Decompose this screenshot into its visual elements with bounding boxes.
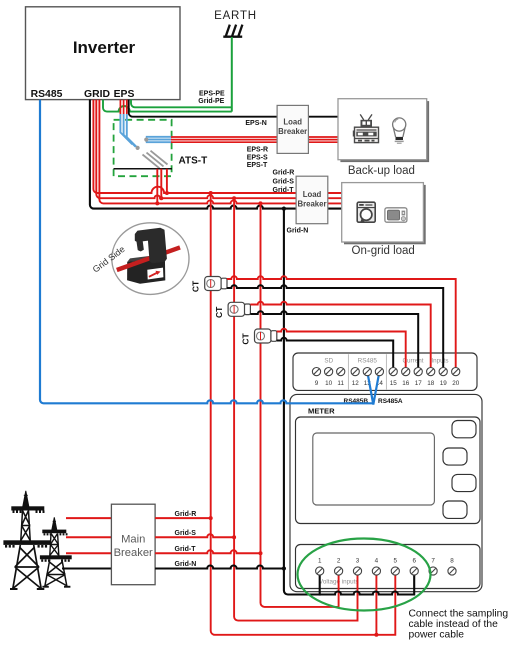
svg-text:Back-up load: Back-up load bbox=[348, 165, 415, 177]
ATS contact pivot dot bbox=[144, 138, 148, 142]
svg-text:EPS-T: EPS-T bbox=[247, 162, 268, 169]
svg-text:16: 16 bbox=[402, 380, 410, 387]
wire Grid-T bus H3 (red) bbox=[99, 100, 341, 204]
junction dots ATS feeds bbox=[155, 201, 159, 205]
svg-text:17: 17 bbox=[415, 380, 423, 387]
svg-text:METER: METER bbox=[308, 407, 335, 416]
svg-text:CT: CT bbox=[214, 306, 224, 318]
wire Grid-PE (green, bump over EPS wires) bbox=[103, 100, 232, 112]
svg-text:RS485: RS485 bbox=[358, 358, 378, 365]
ATS switch blades (blue) bbox=[120, 114, 138, 149]
meter terminal numbers 1-8 bbox=[318, 558, 454, 565]
svg-text:Main: Main bbox=[121, 534, 145, 546]
CT1 red lead bbox=[227, 276, 456, 371]
svg-text:SD: SD bbox=[324, 358, 333, 365]
CT1 current transformer bbox=[205, 277, 227, 291]
ATS grid-side blades (gray) bbox=[143, 151, 168, 169]
wire Grid-S bus H2 (red) bbox=[96, 100, 341, 199]
svg-text:Breaker: Breaker bbox=[114, 547, 153, 559]
wires grid to main breaker bbox=[66, 518, 111, 553]
wire vertical V2 Grid-S to meter terminal 3 bbox=[234, 198, 357, 620]
wire Grid-T output (bumps over V1,V2) bbox=[155, 550, 260, 553]
on-grid load box shadow bbox=[344, 185, 426, 244]
CT2 red lead bbox=[250, 302, 430, 372]
wire Grid-N output (bumps over V1,V2,V3) bbox=[155, 566, 284, 569]
meter group separators bbox=[348, 354, 386, 389]
ATS grid feed wires (red verticals to bus) bbox=[157, 169, 167, 204]
svg-text:ATS-T: ATS-T bbox=[179, 156, 208, 167]
inverter U1 bbox=[26, 7, 181, 100]
svg-text:Grid-N: Grid-N bbox=[287, 228, 309, 235]
utility grid tower (small) bbox=[40, 517, 72, 587]
svg-text:18: 18 bbox=[427, 380, 435, 387]
light bulb icon bbox=[393, 118, 406, 144]
svg-text:2: 2 bbox=[337, 558, 341, 565]
svg-text:10: 10 bbox=[325, 380, 333, 387]
microwave icon bbox=[385, 208, 407, 222]
svg-text:12: 12 bbox=[352, 380, 360, 387]
svg-text:20: 20 bbox=[452, 380, 460, 387]
svg-text:GRID: GRID bbox=[84, 89, 110, 100]
svg-text:EPS-PE: EPS-PE bbox=[199, 90, 225, 97]
highlight ellipse voltage inputs bbox=[298, 539, 431, 611]
CT3 current transformer bbox=[255, 329, 277, 343]
svg-text:EPS-N: EPS-N bbox=[245, 120, 266, 127]
svg-text:1: 1 bbox=[318, 558, 322, 565]
svg-text:19: 19 bbox=[440, 380, 448, 387]
svg-text:Grid-R: Grid-R bbox=[175, 511, 197, 518]
on-grid load box bbox=[342, 183, 424, 242]
junction dot terminal4 bbox=[374, 633, 378, 637]
svg-text:On-grid load: On-grid load bbox=[352, 245, 415, 257]
wire EPS-PE (green) bbox=[131, 100, 232, 108]
wire vertical V3 Grid-T to meter terminal 2 bbox=[261, 203, 339, 607]
svg-text:Grid-T: Grid-T bbox=[175, 546, 197, 553]
wire EPS-N (black) bbox=[129, 100, 338, 117]
annotation sampling cable bbox=[409, 609, 509, 641]
svg-text:11: 11 bbox=[337, 380, 344, 387]
wire Grid-R output bbox=[155, 517, 211, 519]
washing machine icon bbox=[357, 202, 375, 222]
wire RS485 V to terminals 13/14 bbox=[367, 372, 379, 405]
svg-text:5: 5 bbox=[394, 558, 398, 565]
svg-text:Grid-T: Grid-T bbox=[273, 187, 295, 194]
CT2 current transformer bbox=[228, 302, 250, 316]
svg-text:Grid-S: Grid-S bbox=[273, 179, 295, 186]
svg-text:15: 15 bbox=[390, 380, 398, 387]
meter terminals 1-8 circles bbox=[316, 567, 457, 575]
svg-text:power cable: power cable bbox=[409, 630, 465, 641]
svg-text:EPS: EPS bbox=[114, 89, 135, 100]
svg-text:RS485: RS485 bbox=[31, 89, 63, 100]
svg-text:7: 7 bbox=[431, 558, 435, 565]
wire RS485 (blue) inverter to meter bbox=[40, 100, 373, 404]
svg-text:cable instead of the: cable instead of the bbox=[409, 619, 499, 630]
svg-text:Inputs: Inputs bbox=[431, 358, 448, 365]
CT3 black lead bbox=[277, 338, 394, 372]
svg-text:8: 8 bbox=[450, 558, 454, 565]
svg-text:RS485A: RS485A bbox=[378, 398, 403, 405]
wire vertical V4 Grid-N to meter terminals 6,1 (black) bbox=[284, 209, 414, 595]
svg-text:CT: CT bbox=[241, 333, 251, 345]
svg-text:Grid-R: Grid-R bbox=[273, 170, 295, 177]
load breaker Q1 (EPS) bbox=[277, 105, 308, 153]
wires EPS R/S/T from inverter (red verticals) bbox=[120, 100, 126, 115]
wires EPS-R/S/T (red) to load breaker bbox=[171, 137, 338, 142]
wire Grid-N bus (black) bbox=[90, 100, 342, 209]
svg-text:CT: CT bbox=[191, 280, 201, 292]
junction dots main breaker outputs bbox=[209, 516, 213, 520]
svg-text:EPS-S: EPS-S bbox=[247, 154, 268, 161]
ATS bottom bar bbox=[114, 168, 173, 170]
junction dots bus/verticals (top) bbox=[209, 191, 213, 195]
wire Grid-S output (bump over V1) bbox=[155, 534, 234, 537]
wire earth lead (green vertical) bbox=[231, 37, 233, 112]
load breaker Q2 (Grid) bbox=[296, 176, 328, 224]
wire Grid-R bus H1 (red) bbox=[93, 100, 341, 193]
svg-text:EPS-R: EPS-R bbox=[247, 147, 268, 154]
svg-text:EARTH: EARTH bbox=[214, 10, 257, 22]
back-up load box bbox=[338, 99, 427, 160]
back-up load box shadow bbox=[340, 101, 429, 162]
meter terminals 9-20 circles bbox=[312, 368, 459, 376]
svg-text:Grid-N: Grid-N bbox=[175, 561, 197, 568]
svg-text:Connect the sampling: Connect the sampling bbox=[409, 609, 509, 620]
CT1 black lead bbox=[227, 285, 443, 371]
meter M1 body bbox=[290, 353, 482, 592]
svg-text:9: 9 bbox=[315, 380, 319, 387]
svg-text:Load: Load bbox=[283, 118, 302, 127]
svg-text:4: 4 bbox=[375, 558, 379, 565]
utility grid tower (large) bbox=[3, 491, 50, 590]
ATS fixed contacts (blue) bbox=[146, 137, 172, 142]
svg-text:Grid-PE: Grid-PE bbox=[198, 98, 224, 105]
svg-text:Load: Load bbox=[303, 190, 322, 199]
svg-text:3: 3 bbox=[356, 558, 360, 565]
CT2 black lead bbox=[250, 311, 418, 371]
svg-text:Inverter: Inverter bbox=[73, 38, 136, 57]
ATS blade pivot dot bbox=[136, 146, 140, 150]
svg-text:6: 6 bbox=[412, 558, 416, 565]
wire terminal 1 drop (black) bbox=[319, 571, 321, 596]
wire terminal 4 drop bbox=[375, 571, 377, 635]
svg-text:Breaker: Breaker bbox=[278, 127, 307, 136]
earth symbol bbox=[223, 25, 242, 37]
meter terminal numbers 9-20 bbox=[315, 380, 460, 387]
CT clamp inset bbox=[91, 223, 189, 295]
ATS-T dashed enclosure bbox=[114, 120, 172, 176]
wire vertical V1 Grid-R to meter terminals 4,5 bbox=[211, 193, 396, 635]
CT3 red lead bbox=[277, 329, 406, 372]
svg-text:Grid-S: Grid-S bbox=[175, 530, 197, 537]
svg-text:Breaker: Breaker bbox=[297, 200, 326, 209]
TV icon bbox=[353, 114, 379, 142]
main breaker Q3 bbox=[111, 504, 155, 585]
